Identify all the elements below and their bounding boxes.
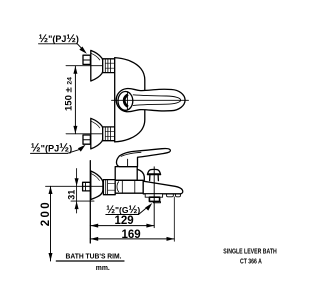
pipe nipple (side view) (83, 182, 91, 191)
wire axis line through upper bell (90, 65, 101, 67)
escutcheon bell (side view) (91, 171, 103, 200)
faucet body (top view) (115, 58, 145, 142)
svg-text:BATH TUB'S RIM.: BATH TUB'S RIM. (66, 252, 122, 261)
handle inner blade outline (top view) (133, 95, 181, 106)
lever handle (top view) (116, 88, 185, 111)
dimension 129 (90, 225, 154, 227)
spout tab 2 (176, 194, 181, 197)
dimension 200 (50, 186, 52, 261)
spout tab 1 (167, 194, 174, 197)
handle boss mark (top view) (124, 95, 127, 106)
pipe nipple upper (top view) (83, 55, 90, 64)
aerator lip (153, 202, 160, 203)
connection nut upper (top view) (103, 59, 115, 73)
dimension 150 ± 24 (74, 66, 76, 134)
wire supply axis line upper union (66, 65, 90, 67)
lever inner accent line (121, 152, 141, 156)
aerator body (149, 197, 159, 201)
connection nut (side view) (103, 180, 115, 195)
wire wall line (89, 161, 91, 243)
svg-text:mm.: mm. (96, 263, 110, 272)
label 1/2"(PJ1/2) upper (39, 44, 82, 48)
handle boss vertical centerline (top view) (126, 92, 128, 111)
svg-text:169: 169 (122, 229, 141, 241)
svg-text:SINGLE LEVER BATH: SINGLE LEVER BATH (223, 248, 276, 255)
cartridge housing (side view) (115, 167, 144, 181)
pipe nipple lower (top view) (83, 135, 90, 144)
label 1/2"(G1/2) (106, 207, 148, 215)
escutcheon bell lower (top view) (91, 118, 103, 149)
body shoulder arc (137, 169, 144, 180)
svg-text:129: 129 (115, 215, 134, 227)
label 1/2"(PJ1/2) lower (31, 149, 81, 153)
diverter knob cap (147, 169, 160, 180)
svg-text:31: 31 (66, 190, 76, 200)
dimension 31 (71, 169, 94, 213)
svg-text:½"(PJ½): ½"(PJ½) (31, 141, 72, 155)
bath tub rim line (56, 260, 124, 262)
svg-text:200: 200 (40, 200, 52, 226)
wire centerline through knob and outlet (153, 167, 155, 228)
svg-text:CT 366 A: CT 366 A (240, 258, 262, 265)
wire supply axis line lower union (66, 133, 90, 135)
svg-text:½"(PJ½): ½"(PJ½) (39, 33, 79, 45)
wire supply axis line (side view) (46, 185, 104, 187)
wire axis line through side bell (83, 185, 104, 187)
lever handle (side view) (116, 149, 170, 167)
diverter knob stem (150, 175, 159, 181)
wire axis line through lower bell (90, 133, 101, 135)
dimension 169 (90, 238, 174, 240)
connection nut lower (top view) (103, 127, 115, 141)
aerator collar (145, 194, 162, 197)
main body block (side view) (115, 180, 143, 193)
wire extension line spout tip (173, 197, 175, 241)
spout (side view) (143, 181, 183, 194)
handle boss ellipse (top view) (118, 92, 133, 111)
escutcheon bell upper (top view) (91, 50, 103, 81)
wire centerline through handle (top view) (112, 99, 189, 101)
